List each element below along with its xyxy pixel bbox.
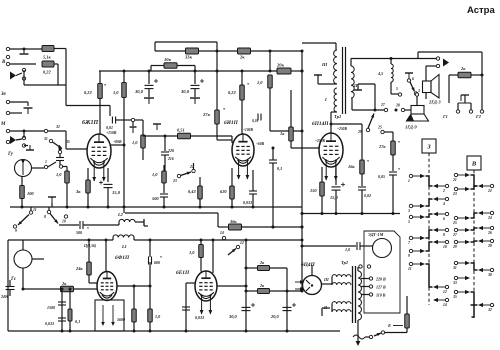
svg-text:0,033: 0,033 xyxy=(45,321,54,326)
svg-text:22: 22 xyxy=(487,189,492,193)
svg-text:30,0: 30,0 xyxy=(180,89,190,94)
svg-text:32: 32 xyxy=(55,125,60,129)
svg-text:24: 24 xyxy=(487,216,492,220)
svg-text:1500: 1500 xyxy=(47,305,55,310)
svg-text:6Ф1П: 6Ф1П xyxy=(115,255,130,261)
svg-text:10: 10 xyxy=(443,245,447,249)
svg-text:II: II xyxy=(353,83,358,88)
svg-text:24к: 24к xyxy=(75,266,83,271)
svg-text:2к: 2к xyxy=(460,66,466,71)
svg-text:1,0: 1,0 xyxy=(189,250,195,255)
svg-text:*: * xyxy=(398,140,400,145)
svg-text:12: 12 xyxy=(443,290,447,294)
svg-text:100: 100 xyxy=(27,191,34,196)
svg-text:5: 5 xyxy=(408,220,410,224)
svg-text:27к: 27к xyxy=(202,112,211,117)
svg-text:0,033: 0,033 xyxy=(243,200,252,205)
svg-text:0,033: 0,033 xyxy=(195,315,204,320)
svg-text:М: М xyxy=(0,122,6,127)
svg-text:6: 6 xyxy=(443,217,445,221)
svg-text:Е: Е xyxy=(387,323,391,328)
svg-text:31: 31 xyxy=(43,137,48,141)
svg-text:1к: 1к xyxy=(280,131,285,136)
svg-text:10: 10 xyxy=(62,220,66,224)
svg-text:5,1к: 5,1к xyxy=(43,55,51,60)
svg-text:1ГД-9: 1ГД-9 xyxy=(405,125,417,130)
svg-text:127 В: 127 В xyxy=(376,284,386,289)
svg-text:+250В: +250В xyxy=(337,127,347,131)
svg-text:1,0: 1,0 xyxy=(113,90,119,95)
svg-text:Г1: Г1 xyxy=(442,114,448,119)
svg-text:220: 220 xyxy=(167,148,174,153)
svg-text:0,22: 0,22 xyxy=(43,70,51,75)
svg-text:23: 23 xyxy=(452,192,457,196)
svg-text:III: III xyxy=(321,62,327,67)
svg-text:5600: 5600 xyxy=(117,317,125,322)
svg-text:27к: 27к xyxy=(378,144,386,149)
svg-text:В: В xyxy=(471,160,477,167)
svg-text:+100В: +100В xyxy=(243,128,253,132)
svg-text:2400: 2400 xyxy=(0,295,9,299)
svg-text:23: 23 xyxy=(172,179,177,183)
svg-text:35: 35 xyxy=(65,140,70,144)
svg-text:30: 30 xyxy=(487,273,492,277)
svg-text:6: 6 xyxy=(412,77,414,81)
svg-text:4,5: 4,5 xyxy=(377,71,383,76)
svg-text:L2: L2 xyxy=(117,212,124,217)
svg-text:15,0: 15,0 xyxy=(330,195,338,200)
svg-text:220 В: 220 В xyxy=(375,276,386,281)
svg-text:9: 9 xyxy=(15,229,17,233)
svg-text:20,0: 20,0 xyxy=(270,314,279,319)
svg-text:I: I xyxy=(324,97,327,102)
svg-text:1: 1 xyxy=(408,179,410,183)
svg-text:0,22: 0,22 xyxy=(84,90,92,95)
svg-text:1: 1 xyxy=(45,160,47,164)
svg-text:+250В: +250В xyxy=(315,139,325,143)
svg-text:L1: L1 xyxy=(121,244,127,249)
svg-text:2к: 2к xyxy=(259,283,265,288)
svg-text:0,02: 0,02 xyxy=(364,193,371,198)
svg-text:4: 4 xyxy=(442,202,445,206)
svg-text:0,1: 0,1 xyxy=(277,166,282,171)
svg-text:Гу: Гу xyxy=(7,152,14,157)
svg-text:1,0: 1,0 xyxy=(56,172,62,177)
svg-text:Зв: Зв xyxy=(0,92,7,97)
svg-text:6Е1П: 6Е1П xyxy=(176,270,190,276)
svg-text:620: 620 xyxy=(220,189,227,194)
svg-text:10к: 10к xyxy=(164,57,172,62)
svg-text:28: 28 xyxy=(395,104,400,108)
svg-text:11: 11 xyxy=(33,208,37,212)
svg-text:32: 32 xyxy=(487,308,492,312)
svg-text:1,0: 1,0 xyxy=(155,314,161,319)
svg-text:21: 21 xyxy=(452,178,457,182)
svg-text:*: * xyxy=(367,159,369,164)
svg-text:3: 3 xyxy=(407,209,410,213)
svg-text:16к: 16к xyxy=(348,164,355,169)
svg-text:2к: 2к xyxy=(259,260,265,265)
svg-text:Ц(0,56): Ц(0,56) xyxy=(83,244,97,248)
svg-text:12: 12 xyxy=(240,241,244,245)
svg-text:33к: 33к xyxy=(184,55,193,60)
svg-text:1,0: 1,0 xyxy=(345,247,351,252)
svg-text:6Ж1П: 6Ж1П xyxy=(82,120,99,126)
svg-text:3к: 3к xyxy=(75,189,81,194)
svg-text:36к: 36к xyxy=(229,219,237,224)
svg-text:9: 9 xyxy=(408,254,410,258)
svg-text:30,0: 30,0 xyxy=(134,89,144,94)
svg-text:1,0: 1,0 xyxy=(132,140,138,145)
svg-text:Гс: Гс xyxy=(10,277,17,282)
svg-text:З: З xyxy=(426,143,431,150)
svg-text:500: 500 xyxy=(152,196,159,201)
svg-text:14: 14 xyxy=(220,231,224,235)
svg-text:2к: 2к xyxy=(61,281,67,286)
svg-text:216: 216 xyxy=(167,157,174,161)
svg-text:ЭДГ-1М: ЭДГ-1М xyxy=(368,232,384,237)
svg-text:8: 8 xyxy=(443,233,445,237)
svg-text:+60В: +60В xyxy=(256,142,265,146)
svg-text:Астра: Астра xyxy=(467,5,495,16)
svg-text:+150В: +150В xyxy=(106,131,117,135)
svg-text:Г2: Г2 xyxy=(475,114,482,119)
svg-text:25: 25 xyxy=(452,221,457,225)
svg-text:11: 11 xyxy=(408,267,412,271)
svg-text:+80В: +80В xyxy=(113,140,122,144)
svg-text:1,0: 1,0 xyxy=(152,172,158,177)
svg-text:28: 28 xyxy=(487,244,492,248)
svg-text:26: 26 xyxy=(487,231,492,235)
svg-text:0,05: 0,05 xyxy=(378,174,385,179)
svg-text:6Ц4П: 6Ц4П xyxy=(301,262,316,268)
svg-text:6П14П: 6П14П xyxy=(312,121,329,127)
svg-text:29: 29 xyxy=(357,130,362,134)
svg-text:33: 33 xyxy=(452,281,457,285)
svg-text:В: В xyxy=(1,60,6,65)
svg-text:150: 150 xyxy=(310,188,317,193)
svg-text:29: 29 xyxy=(452,245,457,249)
svg-text:25: 25 xyxy=(377,126,382,130)
svg-text:500: 500 xyxy=(76,230,82,235)
svg-text:*: * xyxy=(160,255,162,260)
svg-text:0,51: 0,51 xyxy=(177,128,185,133)
svg-text:*: * xyxy=(398,167,400,172)
svg-text:15,0: 15,0 xyxy=(112,190,121,195)
svg-text:0,43: 0,43 xyxy=(188,189,196,194)
svg-text:6И1П: 6И1П xyxy=(224,120,239,126)
svg-text:III: III xyxy=(323,277,329,282)
svg-text:0,01: 0,01 xyxy=(106,125,113,130)
svg-text:0,01: 0,01 xyxy=(252,119,258,123)
svg-text:0,1: 0,1 xyxy=(75,319,80,324)
svg-text:Тр2: Тр2 xyxy=(341,260,349,265)
svg-text:5: 5 xyxy=(396,87,398,91)
svg-text:110 В: 110 В xyxy=(376,292,386,297)
svg-text:600: 600 xyxy=(154,260,160,265)
svg-text:Тр1: Тр1 xyxy=(334,114,341,119)
svg-text:8: 8 xyxy=(44,215,46,219)
svg-text:31: 31 xyxy=(452,266,457,270)
svg-text:30,0: 30,0 xyxy=(228,314,237,319)
svg-text:*: * xyxy=(87,226,89,231)
svg-text:0,22: 0,22 xyxy=(228,90,236,95)
svg-text:20к: 20к xyxy=(276,63,285,68)
svg-text:1,0: 1,0 xyxy=(257,80,263,85)
svg-text:2: 2 xyxy=(442,189,445,193)
svg-text:14: 14 xyxy=(443,303,447,307)
svg-text:2ГД-3: 2ГД-3 xyxy=(428,100,441,105)
svg-text:35: 35 xyxy=(452,295,457,299)
svg-text:2к: 2к xyxy=(239,55,245,60)
